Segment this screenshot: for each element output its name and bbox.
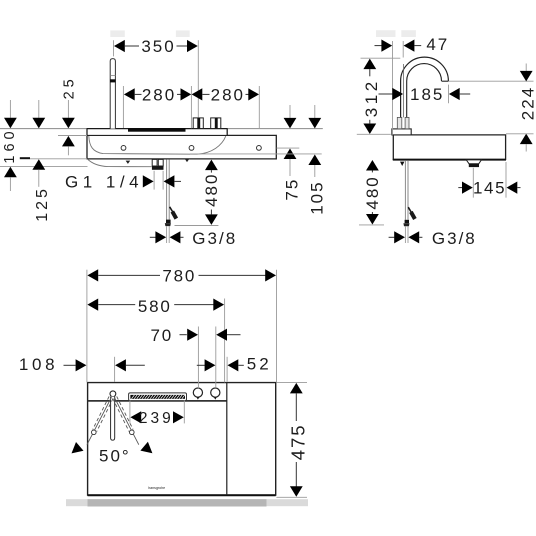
mounting hole 2 bbox=[189, 146, 194, 151]
svg-text:239: 239 bbox=[139, 410, 174, 427]
dim 25 left bbox=[58, 75, 87, 155]
dim 350 front bbox=[114, 37, 199, 117]
wall reference line bbox=[0, 128, 87, 130]
v mark 2 bbox=[185, 159, 190, 162]
basin inner curve bbox=[89, 136, 226, 154]
svg-text:580: 580 bbox=[138, 297, 172, 316]
svg-text:160: 160 bbox=[2, 127, 18, 163]
slot front bbox=[128, 128, 186, 132]
slot plan bbox=[129, 393, 187, 401]
svg-text:480: 480 bbox=[363, 175, 382, 209]
dim 108 bbox=[19, 355, 145, 382]
knob 1 front bbox=[193, 118, 203, 129]
svg-text:185: 185 bbox=[410, 85, 444, 104]
svg-text:70: 70 bbox=[150, 326, 173, 345]
swivel arc arrow left bbox=[72, 442, 84, 453]
dim 280 right front bbox=[192, 85, 260, 129]
shadow bbox=[66, 499, 308, 506]
dim 480 front bbox=[175, 160, 221, 226]
dim 475 bbox=[276, 382, 308, 497]
svg-text:52: 52 bbox=[247, 355, 272, 374]
svg-text:25: 25 bbox=[61, 75, 77, 99]
svg-text:G1 1/4: G1 1/4 bbox=[65, 173, 143, 192]
svg-text:G3/8: G3/8 bbox=[432, 229, 477, 248]
dim 480 side bbox=[359, 160, 384, 225]
svg-text:280: 280 bbox=[211, 85, 245, 104]
dim 580 bbox=[87, 297, 224, 382]
unit cross-section bbox=[393, 135, 505, 160]
v mark 1 bbox=[126, 161, 131, 164]
aerator outlet bbox=[466, 160, 481, 164]
spout gooseneck bbox=[401, 57, 449, 117]
knob circle 1 plan bbox=[193, 388, 202, 397]
drain fitting bbox=[152, 159, 157, 166]
svg-text:145: 145 bbox=[473, 179, 506, 198]
watermark smudges top bbox=[110, 30, 416, 37]
lever pin front bbox=[110, 59, 115, 129]
faucet pedestal bbox=[392, 129, 411, 135]
lever handle plan bbox=[111, 397, 115, 441]
svg-text:G3/8: G3/8 bbox=[192, 229, 237, 248]
dim 239 bbox=[130, 401, 184, 428]
svg-text:475: 475 bbox=[288, 423, 309, 460]
knob circle 2 plan bbox=[211, 388, 220, 397]
lever swivel dashed left bbox=[87, 397, 112, 445]
svg-text:224: 224 bbox=[519, 86, 536, 120]
dim 145 bbox=[458, 162, 520, 198]
svg-text:350: 350 bbox=[141, 37, 175, 56]
hose front bbox=[166, 159, 168, 219]
rail front edge plan bbox=[88, 400, 227, 402]
dim 52 bbox=[197, 355, 272, 382]
svg-text:75: 75 bbox=[283, 178, 302, 201]
dim 160 left bbox=[0, 100, 88, 191]
dim 47 bbox=[375, 35, 450, 135]
hose side bbox=[400, 162, 404, 166]
mounting hole 3 bbox=[257, 146, 262, 151]
svg-text:312: 312 bbox=[362, 78, 381, 117]
dim 185 bbox=[379, 85, 471, 104]
dim 312 bbox=[357, 58, 401, 134]
svg-text:105: 105 bbox=[307, 180, 326, 214]
svg-text:480: 480 bbox=[202, 173, 221, 207]
svg-text:50°: 50° bbox=[99, 446, 131, 465]
dim 105 bbox=[190, 105, 326, 215]
svg-text:280: 280 bbox=[142, 85, 176, 104]
dim 280 left front bbox=[123, 85, 191, 128]
knob 2 front bbox=[211, 118, 221, 129]
dim 125 left bbox=[20, 100, 87, 222]
unit outline front bbox=[87, 129, 276, 159]
plan outline bbox=[88, 383, 276, 495]
collar left bbox=[397, 117, 402, 128]
mounting hole 1 bbox=[121, 146, 126, 151]
collar right bbox=[405, 117, 409, 128]
svg-text:hansgrohe: hansgrohe bbox=[148, 486, 165, 490]
dim G3/8 side bbox=[389, 226, 477, 248]
dim 70 bbox=[150, 326, 240, 389]
dim 224 bbox=[449, 64, 536, 152]
rail top edge bbox=[87, 128, 228, 130]
lever pivot plan bbox=[110, 391, 116, 397]
svg-text:780: 780 bbox=[162, 267, 196, 286]
dim G3/8 front bbox=[150, 226, 237, 248]
svg-text:125: 125 bbox=[34, 186, 51, 222]
divider plan bbox=[226, 383, 228, 495]
swivel arc arrow right bbox=[140, 442, 152, 453]
svg-text:108: 108 bbox=[19, 355, 58, 374]
dim 780 bbox=[87, 267, 277, 383]
basin underside curve bbox=[87, 159, 151, 167]
deck surface line bbox=[87, 134, 227, 136]
svg-text:47: 47 bbox=[426, 35, 449, 54]
dim G1 1/4 bbox=[65, 171, 181, 192]
dim 75 bbox=[277, 105, 302, 201]
